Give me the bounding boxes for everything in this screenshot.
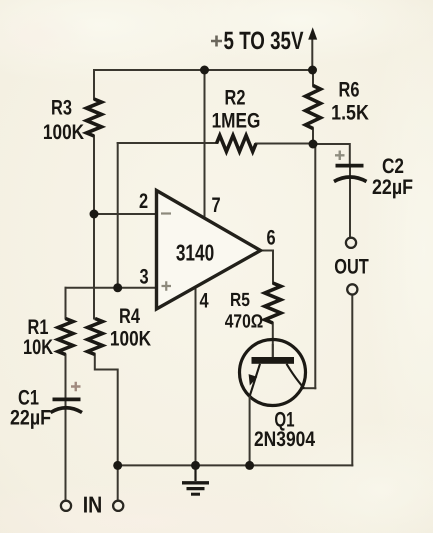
svg-text:10K: 10K [23,336,53,359]
svg-text:3: 3 [139,266,148,289]
svg-text:IN: IN [83,492,103,518]
svg-text:22µF: 22µF [372,176,413,199]
svg-text:OUT: OUT [334,256,369,279]
svg-text:R6: R6 [339,79,360,102]
svg-text:R4: R4 [119,305,140,328]
svg-text:7: 7 [211,194,220,217]
svg-text:1.5K: 1.5K [331,102,369,125]
svg-text:3140: 3140 [176,240,214,266]
svg-text:R5: R5 [230,290,250,311]
svg-text:22µF: 22µF [10,407,51,430]
svg-text:470Ω: 470Ω [225,312,263,333]
svg-text:4: 4 [199,290,208,313]
svg-text:R2: R2 [225,87,246,110]
svg-text:6: 6 [266,227,275,250]
svg-text:100K: 100K [43,121,84,144]
svg-text:R3: R3 [51,97,72,120]
svg-text:C2: C2 [382,155,404,178]
svg-text:5 TO 35V: 5 TO 35V [224,27,304,55]
svg-text:2: 2 [139,190,148,213]
svg-text:2N3904: 2N3904 [254,428,315,451]
svg-text:1MEG: 1MEG [212,110,261,133]
svg-text:100K: 100K [110,328,151,351]
